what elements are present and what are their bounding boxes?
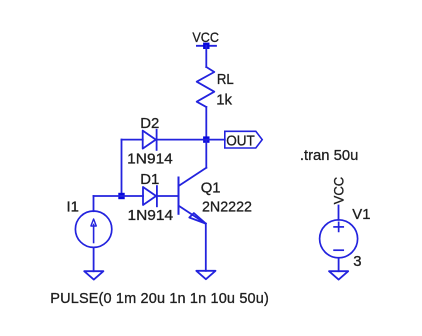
wire: D1 cathode to Q1 base: [157, 195, 179, 197]
resistor RL: [197, 67, 215, 107]
wire: branch node to D1 anode: [122, 195, 144, 197]
OUT flag: [225, 131, 262, 148]
svg-text:1N914: 1N914: [128, 207, 174, 224]
ground (under V1): [329, 271, 348, 279]
svg-text:V1: V1: [352, 207, 370, 223]
voltage source V1: [320, 220, 358, 258]
wire: D2 cathode to OUT node: [157, 139, 207, 141]
wire: VCC flag to V1 top: [338, 206, 340, 220]
wire: left corner to D2 anode: [122, 139, 143, 141]
svg-text:VCC: VCC: [332, 177, 347, 205]
diode D2: [143, 130, 157, 150]
svg-text:3: 3: [353, 254, 361, 270]
node: D1/D2 branch junction square: [118, 193, 124, 199]
wire: branch to I1 top: [93, 196, 95, 211]
svg-text:1k: 1k: [216, 92, 232, 109]
svg-text:1N914: 1N914: [127, 151, 173, 168]
svg-text:Q1: Q1: [201, 180, 221, 196]
ground (under Q1): [196, 271, 215, 279]
node: VCC port junction square: [203, 43, 209, 49]
node: OUT junction square: [203, 136, 209, 142]
svg-text:D1: D1: [140, 172, 159, 188]
svg-text:2N2222: 2N2222: [202, 200, 252, 216]
diode D1: [143, 186, 157, 206]
svg-text:OUT: OUT: [226, 132, 255, 149]
transistor Q1: [179, 140, 207, 224]
ground (under I1): [84, 271, 103, 279]
wire: I1 bottom to ground: [93, 247, 95, 271]
svg-text:RL: RL: [217, 72, 234, 88]
svg-text:PULSE(0 1m 20u 1n 1n 10u 50u): PULSE(0 1m 20u 1n 1n 10u 50u): [50, 291, 268, 307]
wire: OUT node to OUT flag: [206, 139, 225, 141]
wire: I1 to branch node: [94, 195, 122, 197]
wire: RL bottom to OUT node: [205, 107, 207, 140]
wire: vertical from D2 corner to branch node: [121, 140, 123, 196]
wire: VCC flag to RL top: [205, 46, 207, 67]
svg-text:D2: D2: [140, 116, 159, 132]
svg-text:I1: I1: [67, 199, 79, 215]
wire: Q1 emitter to ground: [205, 224, 207, 271]
VCC flag (top): [197, 45, 216, 47]
svg-text:.tran 50u: .tran 50u: [300, 148, 358, 164]
wire: V1 bottom to ground: [338, 258, 340, 271]
current source I1: [75, 211, 111, 247]
